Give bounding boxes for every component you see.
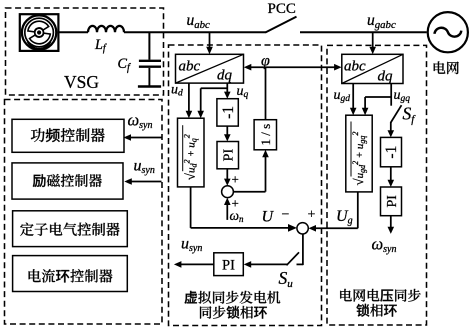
svg-text:PI: PI: [222, 258, 235, 274]
svg-text:dq: dq: [378, 69, 394, 85]
svg-text:−: −: [282, 208, 290, 223]
PI block (u_syn): [214, 253, 244, 276]
svg-text:ugq: ugq: [394, 88, 411, 104]
svg-text:-1: -1: [220, 106, 237, 119]
integrator block 1/s: [254, 120, 276, 150]
grid PLL enclosure dashed box: [327, 45, 427, 325]
svg-text:abc: abc: [344, 59, 366, 75]
phi double-headed arrow wire: [244, 64, 342, 71]
wire Ug to U junction: [309, 192, 358, 232]
svg-text:Cf: Cf: [118, 56, 131, 73]
controller box 励磁控制器: [12, 163, 123, 199]
magnitude block sqrt(ud2+uq2): [178, 118, 205, 187]
svg-text:VSG: VSG: [64, 72, 99, 92]
svg-text:uq: uq: [237, 84, 249, 100]
controller box 功频控制器: [12, 119, 124, 152]
svg-text:ugabc: ugabc: [367, 12, 396, 31]
svg-text:usyn: usyn: [181, 236, 202, 255]
wire summing junction to 1/s: [233, 150, 268, 192]
controller box 定子电气控制器: [13, 211, 128, 247]
capacitor Cf branch wire: [148, 32, 150, 60]
wire inductor to switch: [124, 31, 266, 33]
caption grid PLL line1: [340, 289, 421, 302]
wire magnitude output to U junction: [191, 187, 297, 232]
magnitude block sqrt(ugd2+ugq2): [346, 115, 372, 192]
svg-text:+: +: [232, 172, 239, 187]
label grid 电网: [434, 61, 459, 74]
summing junction S2 (U comparison): [297, 223, 308, 234]
wire u_gq down with branch: [362, 84, 391, 116]
wire PI to summing junction: [224, 169, 231, 186]
controllers enclosure dashed box: [5, 100, 163, 325]
wire -1 to PI: [224, 126, 231, 141]
svg-text:usyn: usyn: [134, 158, 155, 177]
wire u_abc tap down: [206, 32, 213, 54]
VSG enclosure dashed box: [6, 8, 164, 95]
svg-text:U: U: [262, 209, 275, 226]
controller box 电流环控制器: [13, 256, 128, 292]
svg-text:ωn: ωn: [230, 208, 245, 224]
svg-text:Sf: Sf: [403, 104, 417, 126]
u_syn output arrow: [174, 261, 214, 268]
u_syn input arrow (left): [124, 178, 161, 185]
svg-text:PCC: PCC: [268, 1, 296, 17]
wire u_q down with branch: [197, 83, 230, 118]
svg-text:Su: Su: [279, 268, 294, 290]
omega_syn input arrow (left): [124, 134, 162, 141]
caption VSG PLL line1: [185, 291, 281, 304]
caption grid PLL line2: [356, 304, 396, 317]
wire u_gd down to magnitude block: [350, 84, 357, 116]
wire switch to grid: [300, 31, 427, 33]
svg-text:ud: ud: [171, 83, 183, 99]
omega_n input arrow: [224, 198, 231, 220]
caption VSG PLL line2: [200, 306, 267, 319]
PI block (grid pll): [381, 187, 402, 216]
switch Sf blade: [391, 105, 402, 122]
PI block (VSG pll): [217, 142, 239, 169]
summing junction S1: [222, 186, 234, 198]
wire switch Sf to -1: [388, 122, 395, 137]
svg-text:Lf: Lf: [94, 37, 107, 54]
switch Su blade: [287, 252, 300, 265]
svg-text:ugd: ugd: [334, 88, 351, 104]
svg-text:uabc: uabc: [187, 12, 211, 31]
svg-text:Ug: Ug: [336, 208, 353, 227]
abc/dq transform block U2 (VSG side): [176, 54, 244, 83]
inverter block -1 (VSG pll): [217, 99, 238, 126]
svg-text:PI: PI: [222, 149, 237, 162]
wire -1 to PI (grid pll): [388, 167, 395, 187]
wire u_d down to magnitude block: [186, 83, 193, 118]
capacitor Cf: [138, 61, 161, 87]
svg-text:dq: dq: [217, 68, 233, 84]
svg-text:ωsyn: ωsyn: [128, 111, 153, 132]
wire u_gabc tap down: [369, 32, 376, 54]
VSG PLL enclosure dashed box: [169, 45, 322, 326]
wire 1/s to phi line: [265, 67, 267, 120]
svg-text:1 / s: 1 / s: [258, 124, 273, 146]
AC source sine wave: [435, 28, 462, 37]
AC source grid circle: [428, 12, 468, 52]
svg-text:+: +: [308, 208, 316, 223]
abc/dq transform block U3 (grid side): [342, 54, 403, 83]
svg-text:-1: -1: [383, 146, 400, 159]
svg-text:ωsyn: ωsyn: [372, 235, 397, 256]
omega_syn output arrow (grid pll): [388, 216, 395, 234]
svg-text:abc: abc: [179, 59, 201, 75]
inverter block -1 (grid pll): [381, 137, 402, 166]
wire switch to PI u_syn: [244, 261, 287, 268]
switch PCC blade: [265, 17, 296, 33]
svg-text:PI: PI: [385, 195, 400, 208]
inductor Lf: [88, 26, 124, 32]
wire machine to inductor: [58, 31, 88, 33]
synchronous machine M1: [20, 14, 59, 51]
wire S2 down to switch Su: [297, 234, 303, 265]
